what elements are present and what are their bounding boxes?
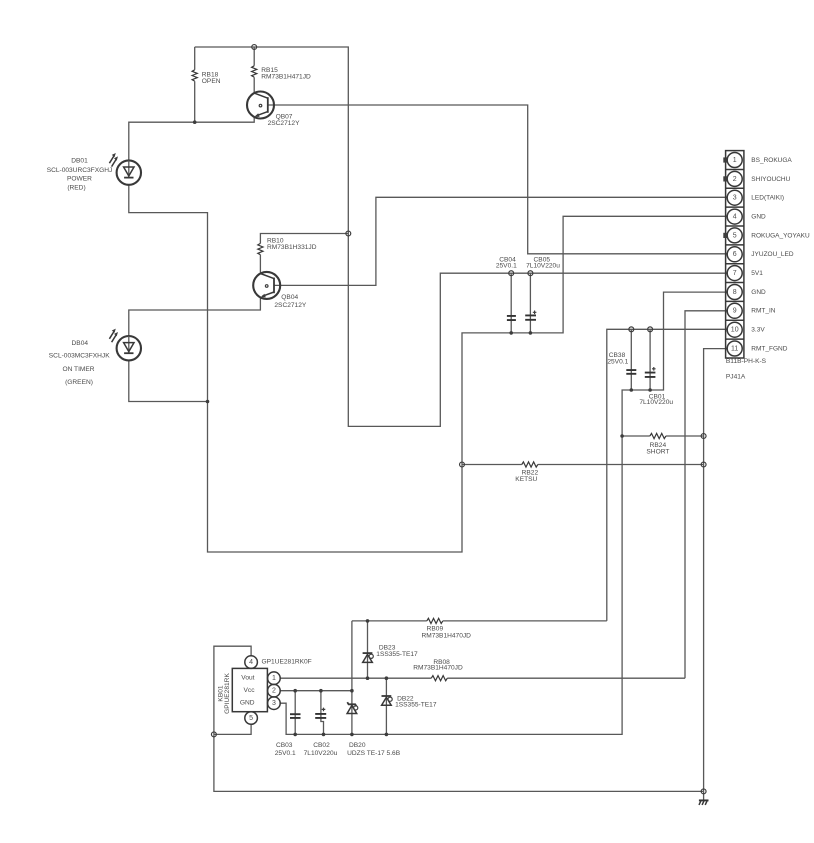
pin 11: [727, 341, 742, 356]
svg-text:SCL-003MC3FXHJK: SCL-003MC3FXHJK: [49, 352, 110, 359]
svg-text:POWER: POWER: [67, 175, 92, 182]
svg-text:BS_ROKUGA: BS_ROKUGA: [751, 157, 792, 164]
svg-text:ROKUGA_YOYAKU: ROKUGA_YOYAKU: [751, 232, 810, 239]
wire CB04 lead: [510, 273, 512, 333]
wire RB08 leads: [280, 677, 685, 679]
svg-text:CB03: CB03: [276, 742, 293, 749]
pin 9: [727, 303, 742, 318]
wire DB22 vertical: [385, 678, 387, 734]
svg-text:(RED): (RED): [67, 185, 85, 192]
svg-text:Vout: Vout: [241, 675, 254, 682]
pin 1 NC square: [723, 157, 727, 162]
svg-text:7L10V220u: 7L10V220u: [639, 399, 673, 406]
wire CB05 lead: [529, 273, 531, 333]
wire pin 10 3.3V to RB09: [607, 329, 727, 621]
KB01 pin 1 Vout: [268, 672, 281, 685]
pin 4: [727, 209, 742, 224]
wire LED cathode chain to RB22 left node: [208, 402, 463, 553]
capacitor CB02: [315, 708, 326, 718]
svg-text:RM73B1H470JD: RM73B1H470JD: [421, 633, 471, 640]
svg-text:Vcc: Vcc: [244, 687, 256, 694]
svg-text:2SC2712Y: 2SC2712Y: [268, 120, 300, 127]
svg-text:1: 1: [733, 157, 737, 164]
pin 10: [727, 322, 742, 337]
wire QB07 emitter to DB01 anode: [129, 117, 254, 160]
svg-text:1: 1: [272, 675, 276, 682]
svg-text:5: 5: [249, 715, 253, 722]
svg-text:4: 4: [249, 659, 253, 666]
svg-text:10: 10: [731, 327, 739, 334]
LED DB01: [109, 153, 141, 185]
resistor RB09: [427, 618, 443, 623]
svg-text:KETSU: KETSU: [515, 476, 537, 483]
wire DB20 vertical: [351, 621, 353, 735]
connector cell separators: [726, 169, 744, 339]
wire KB01 Vcc pin2 to DB20: [280, 690, 352, 692]
wire DB23 vertical: [367, 621, 369, 678]
wire pin 9 RMT_IN to RB08: [685, 311, 727, 678]
wire CB04 CB05 bottoms to pin 4 GND: [462, 216, 727, 464]
svg-text:2: 2: [733, 176, 737, 183]
KB01 pin 4: [245, 656, 258, 669]
connector PJ41A outer box: [726, 151, 744, 358]
svg-text:GND: GND: [751, 214, 766, 221]
pin 8: [727, 285, 742, 300]
resistor RB15: [252, 66, 257, 77]
wire QB04 emitter to DB04 anode: [129, 297, 261, 336]
pin 2: [727, 171, 742, 186]
wire CB38 lead: [630, 329, 632, 390]
svg-text:7L10V220u: 7L10V220u: [304, 750, 338, 757]
svg-text:DB01: DB01: [71, 158, 88, 165]
wire pin 11 RMT_FGND to ground: [704, 349, 728, 792]
KB01 pin 2 Vcc: [268, 684, 281, 697]
pin 5: [727, 228, 742, 243]
svg-text:B11B-PH-K-S: B11B-PH-K-S: [726, 358, 767, 365]
svg-text:RM73B1H471JD: RM73B1H471JD: [261, 74, 311, 81]
svg-text:DB04: DB04: [72, 340, 89, 347]
wire pin 8 GND chain to KB01 pin 3: [280, 292, 727, 734]
wire QB07 base to pin 6: [268, 105, 727, 254]
svg-text:3.3V: 3.3V: [751, 327, 765, 334]
svg-text:6: 6: [733, 251, 737, 258]
LED DB04: [109, 329, 141, 361]
wire QB04 base to pin 3: [274, 197, 727, 285]
svg-text:1SS355-TE17: 1SS355-TE17: [376, 651, 418, 658]
svg-text:ON TIMER: ON TIMER: [62, 366, 94, 373]
wire RB09 leads: [352, 620, 607, 622]
svg-text:GP1UE281RK0F: GP1UE281RK0F: [262, 658, 312, 665]
svg-text:9: 9: [733, 308, 737, 315]
svg-text:LED(TAIKI): LED(TAIKI): [751, 195, 784, 202]
wire CB01 lead: [649, 329, 651, 390]
svg-text:7L10V220u: 7L10V220u: [526, 263, 560, 270]
svg-text:(GREEN): (GREEN): [65, 379, 93, 386]
svg-text:3: 3: [272, 700, 276, 707]
node circles: [211, 45, 706, 794]
diode DB23: [363, 653, 374, 662]
svg-text:7: 7: [733, 270, 737, 277]
svg-text:SHIYOUCHU: SHIYOUCHU: [751, 176, 790, 183]
pin 2 NC square: [723, 176, 727, 181]
svg-text:GPIUE281RK: GPIUE281RK: [224, 673, 231, 714]
resistor RB18: [192, 70, 197, 81]
svg-text:RM73B1H470JD: RM73B1H470JD: [413, 665, 463, 672]
svg-text:GND: GND: [751, 289, 766, 296]
resistor RB08: [431, 676, 447, 681]
capacitor CB01: [645, 367, 656, 377]
capacitor CB38: [626, 370, 636, 374]
svg-text:2: 2: [272, 688, 276, 695]
wire RB10 tap and leads: [260, 234, 348, 274]
svg-text:RMT_IN: RMT_IN: [751, 308, 776, 315]
pin 7: [727, 266, 742, 281]
zener diode DB20: [347, 702, 358, 713]
pin 6: [727, 247, 742, 262]
KB01 pin 3 GND: [268, 697, 281, 710]
resistor RB24: [650, 433, 666, 438]
svg-text:5: 5: [733, 232, 737, 239]
pin 1: [727, 153, 742, 168]
svg-text:11: 11: [731, 345, 738, 352]
pin 3: [727, 190, 742, 205]
wire CB02 lead with jog: [321, 691, 324, 735]
capacitor CB03: [290, 714, 301, 718]
transistor QB07: [247, 92, 274, 119]
svg-text:4: 4: [733, 214, 737, 221]
IC KB01 photocoupler box: [232, 668, 267, 711]
svg-text:3: 3: [733, 195, 737, 202]
svg-text:OPEN: OPEN: [202, 78, 221, 85]
svg-text:SCL-003URC3FXGHJ: SCL-003URC3FXGHJ: [47, 167, 113, 174]
svg-text:CB02: CB02: [313, 742, 330, 749]
svg-text:QB04: QB04: [281, 294, 298, 301]
svg-text:GND: GND: [240, 700, 255, 707]
svg-text:25V0.1: 25V0.1: [275, 750, 296, 757]
capacitor CB05: [525, 311, 536, 320]
svg-text:RM73B1H331JD: RM73B1H331JD: [267, 244, 317, 251]
svg-text:25V0.1: 25V0.1: [607, 359, 628, 366]
svg-text:8: 8: [733, 289, 737, 296]
KB01 pin 5: [245, 712, 258, 725]
wire DB04 cathode down: [129, 360, 208, 401]
wire RB15 leads: [253, 47, 255, 93]
svg-text:2SC2712Y: 2SC2712Y: [274, 302, 306, 309]
svg-text:25V0.1: 25V0.1: [496, 263, 517, 270]
svg-text:DB20: DB20: [349, 742, 366, 749]
svg-text:JYUZOU_LED: JYUZOU_LED: [751, 251, 794, 258]
ground (chassis): [699, 800, 709, 805]
svg-text:SHORT: SHORT: [646, 449, 669, 456]
wire 5V1 rail: top rail to pin 7: [195, 47, 728, 426]
wire RB22 leads: [462, 464, 704, 466]
transistor QB04: [253, 272, 280, 299]
capacitor CB04: [507, 316, 516, 320]
wire KB01 pin5 to node: [214, 725, 251, 735]
svg-text:UDZS TE-17 5.6B: UDZS TE-17 5.6B: [347, 750, 401, 757]
resistor RB10: [258, 243, 263, 254]
diode DB22: [382, 696, 393, 705]
resistor RB22: [522, 462, 538, 467]
wire DB01 cathode down: [129, 185, 208, 402]
wire RB24 leads: [622, 435, 704, 437]
wire KB01 pin4 loop to frame ground rail: [214, 646, 704, 791]
svg-text:5V1: 5V1: [751, 270, 763, 277]
wire CB03 lead: [294, 691, 296, 735]
svg-text:1SS355-TE17: 1SS355-TE17: [395, 702, 437, 709]
wire ground stub: [703, 791, 705, 800]
svg-text:RMT_FGND: RMT_FGND: [751, 345, 787, 352]
pin 5 NC square: [723, 233, 727, 238]
svg-text:PJ41A: PJ41A: [726, 374, 746, 381]
wire RB18 leads: [194, 47, 196, 122]
